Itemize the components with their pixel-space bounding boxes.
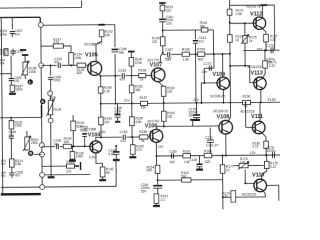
wire V110 output right: [267, 185, 279, 201]
node connector J8: [40, 185, 45, 190]
transistor V112: [253, 17, 266, 30]
wire pot R175 top: [244, 23, 246, 35]
wire V107 collector: [158, 82, 163, 87]
rail bar above R106: [22, 54, 28, 56]
svg-text:52V: 52V: [257, 47, 262, 51]
resistor R149: [160, 37, 165, 46]
svg-text:R166: R166: [242, 94, 250, 98]
wire R181 to V110 collector: [262, 168, 267, 179]
wire input signal y64.7: [41, 64, 56, 66]
wire V106 collector: [156, 126, 157, 129]
svg-text:23.8V: 23.8V: [267, 98, 276, 102]
wire emitter to C163: [101, 75, 122, 77]
junction V108 collector/bus: [225, 154, 227, 156]
rail bar top-left: [20, 49, 26, 51]
wire C173 stub: [204, 67, 214, 69]
capacitor C305: [9, 79, 14, 81]
wire C305a stem2: [12, 53, 14, 55]
resistor R168: [204, 153, 212, 157]
wire C158 stem: [116, 104, 118, 115]
wire rail to output drop: [273, 5, 275, 50]
svg-text:C172: C172: [205, 136, 213, 140]
svg-text:1.2V: 1.2V: [212, 144, 219, 148]
svg-text:R157: R157: [139, 96, 147, 100]
junction R170/output: [265, 49, 267, 51]
svg-text:820: 820: [198, 57, 204, 61]
junction C161/feedback: [195, 53, 197, 55]
resistor R156: [139, 135, 147, 139]
junction R159/C162 wire: [131, 136, 133, 138]
wire y137 b: [126, 136, 139, 138]
ground right of R144: [74, 162, 80, 170]
rail bar above R151: [159, 2, 165, 4]
svg-text:22V: 22V: [193, 98, 200, 102]
wire R134 bottom: [70, 64, 72, 66]
wire x230 top: [228, 0, 230, 9]
wire top right rail y6: [230, 4, 274, 6]
junction R160/V108 base wire: [163, 125, 165, 127]
resistor R152: [154, 194, 159, 204]
wire C173 drop: [213, 54, 215, 68]
capacitor C148: [48, 77, 53, 79]
wire C164 stem: [157, 180, 159, 184]
svg-text:R158: R158: [138, 68, 146, 72]
svg-text:R104: R104: [54, 108, 62, 112]
svg-text:V109: V109: [213, 72, 226, 78]
resistor R139: [77, 63, 86, 67]
capacitor C109: [58, 63, 60, 68]
wire lower bus y156.5: [156, 155, 280, 156]
svg-text:BC238B: BC238B: [84, 42, 96, 46]
resistor R164: [155, 165, 160, 173]
wire top border corner up: [81, 1, 83, 8]
wire left stub y116.5: [0, 116, 41, 118]
capacitor C164: [153, 185, 162, 187]
wire feedback to rail: [195, 54, 197, 103]
potentiometer R176: [238, 162, 249, 170]
potentiometer R175: [241, 35, 249, 45]
ground under R152: [155, 203, 157, 206]
capacitor C167: [168, 52, 170, 57]
resistor R316: [9, 121, 14, 129]
svg-text:V112: V112: [250, 11, 262, 17]
junction R162/rail: [163, 102, 165, 104]
wire C401 down: [162, 22, 164, 37]
svg-text:R347150k: R347150k: [15, 85, 23, 92]
wire supply drop x115.5 upper: [114, 25, 116, 48]
resistor R148: [98, 87, 103, 93]
svg-text:15k: 15k: [141, 106, 147, 110]
wire R173 top: [264, 50, 266, 60]
wire R143 bottom: [101, 37, 103, 42]
wire V110 base: [245, 182, 254, 184]
junction C173/base wire: [203, 82, 205, 84]
capacitor C168: [113, 151, 120, 153]
svg-text:C175: C175: [266, 44, 274, 48]
junction C148 branch: [49, 64, 51, 66]
wire R144 feed: [42, 165, 66, 167]
node connector J1: [38, 22, 43, 27]
wire V106 emitter: [155, 142, 157, 165]
resistor R140b: [71, 121, 76, 131]
ground under C168: [115, 158, 117, 160]
ground under R138: [71, 159, 73, 161]
resistor R172: [227, 9, 232, 15]
wire R159 bottom: [131, 126, 133, 137]
svg-text:R316150k: R316150k: [15, 120, 23, 127]
wire y180.4 to R161b: [158, 179, 223, 182]
wire C173 left drop: [203, 68, 205, 83]
svg-text:C163: C163: [118, 68, 126, 72]
capacitor C173: [209, 66, 211, 71]
wire V112 base: [230, 22, 257, 24]
resistor R153: [129, 85, 134, 93]
resistor R180: [264, 141, 269, 148]
capacitor C155: [82, 133, 87, 135]
node connector J2: [39, 63, 44, 68]
junction R148/rail: [100, 103, 102, 105]
junction V108 emitter/rail: [229, 102, 231, 104]
transistor V105: [88, 61, 102, 75]
junction pot/V113 base wire: [244, 65, 246, 67]
junction R140b/base wire: [72, 145, 74, 147]
svg-text:R106100k: R106100k: [29, 66, 37, 73]
resistor R151: [160, 5, 165, 11]
resistor R166: [243, 100, 251, 104]
wire R161 to feedback drop: [212, 30, 214, 54]
wire R151 to C401: [161, 11, 163, 18]
wire R170 bottom: [265, 42, 267, 50]
junction x115.5/emitter wire: [114, 75, 116, 77]
capacitor C170: [193, 114, 200, 116]
wire C168 bottom stem: [115, 155, 117, 158]
wire R140 bottom: [130, 66, 132, 76]
resistor R173: [263, 61, 268, 68]
capacitor C165: [171, 153, 173, 158]
wire pot R176 left: [234, 165, 239, 167]
ground bar under C158: [115, 121, 120, 123]
junction R140/base wire: [131, 75, 133, 77]
wire x222 drop: [221, 155, 223, 209]
wire main left bus: [41, 25, 42, 187]
wire R149 to emitter node: [162, 46, 164, 53]
svg-text:C162: C162: [120, 130, 128, 134]
resistor R160: [161, 111, 166, 121]
transistor V110: [254, 179, 267, 192]
wire pot R176 right: [248, 164, 264, 166]
potentiometer R104: [46, 99, 54, 116]
wire R104 below connector: [50, 123, 52, 175]
junction R154/C162 wire: [100, 136, 102, 138]
wire R154 bottom: [100, 125, 102, 137]
ground under R155: [132, 154, 134, 157]
wire R153 to rail: [131, 93, 133, 104]
svg-text:1k: 1k: [141, 139, 145, 143]
wire V108 emitter: [228, 103, 231, 122]
wire V104 collector: [96, 137, 101, 141]
capacitor C172: [207, 140, 214, 142]
svg-text:12V: 12V: [250, 151, 257, 155]
junction V109 base bias/rail: [200, 102, 202, 104]
resistor R170: [264, 34, 269, 42]
wire V106 base bar link: [149, 131, 151, 137]
resistor R159: [130, 117, 135, 126]
junction C170/rail: [195, 102, 197, 104]
svg-text:C167: C167: [165, 48, 173, 52]
resistor R138: [70, 152, 75, 160]
wire V111 emitter: [262, 133, 266, 142]
svg-text:V111: V111: [251, 114, 263, 120]
wire mid rail 22V: [101, 102, 280, 104]
resistor R314: [9, 159, 14, 167]
wire C164 to R152: [157, 188, 159, 194]
pot symbol L (volume): [28, 79, 33, 84]
wire R161 feed y30.5: [163, 29, 214, 31]
wire V113 emitter: [261, 88, 262, 102]
svg-text:V106: V106: [145, 123, 158, 129]
svg-text:R305100k: R305100k: [0, 49, 8, 56]
wire R106 top stem: [24, 55, 26, 62]
capacitor C166: [112, 48, 119, 50]
resistor R305: [4, 49, 8, 56]
wire shielded cable segment: [40, 105, 42, 118]
resistor R347: [10, 85, 14, 92]
junction C173 top: [213, 53, 215, 55]
wire V109 collector: [222, 54, 224, 77]
wire supply drop x115.5 lower: [114, 54, 116, 103]
resistor R144: [67, 164, 75, 168]
transistor V111: [252, 121, 265, 134]
svg-text:R144: R144: [66, 160, 74, 164]
resistor R157: [140, 101, 147, 105]
wire V104 base b: [60, 145, 63, 147]
wire y137 c: [148, 136, 151, 138]
wire V112 emitter: [262, 28, 266, 35]
junction x222/y198: [222, 196, 224, 198]
wire V104 base a: [42, 146, 55, 148]
junction C164 node: [157, 179, 159, 181]
wire upper-left feed drop: [39, 17, 41, 25]
wire C308 stem: [11, 167, 13, 173]
wire R140b top: [72, 115, 74, 121]
transistor V108: [219, 120, 233, 134]
junction x222/y155: [221, 154, 223, 156]
wire x230 to rail: [229, 66, 231, 103]
wire feedback y54.7 c: [189, 53, 197, 55]
capacitor C162: [123, 135, 125, 140]
wire V107 emitter: [159, 53, 163, 63]
wire C305a stem: [12, 49, 14, 51]
junction y155/y156 tie: [265, 154, 267, 156]
junction x230/V113 base: [229, 65, 231, 67]
wire R139 to V105 base: [86, 64, 90, 66]
svg-text:R161: R161: [183, 149, 191, 153]
capacitor C175: [271, 47, 273, 53]
capacitor C161: [193, 40, 198, 42]
wire V113 base: [230, 66, 257, 83]
svg-text:BC177C: BC177C: [148, 58, 161, 62]
capacitor C305a: [10, 51, 15, 53]
resistor R140: [129, 58, 134, 67]
wire C148 branch top: [49, 65, 51, 75]
wire R155 top: [132, 137, 134, 145]
junction output mid: [265, 154, 267, 156]
wire C306 stem top: [10, 118, 12, 136]
svg-text:BC338-25: BC338-25: [210, 94, 225, 98]
svg-text:1k: 1k: [140, 77, 144, 81]
transistor V104: [90, 141, 102, 153]
wire C172 stem up: [209, 128, 211, 140]
wire V104 emitter: [96, 153, 103, 167]
resistor R166a: [198, 52, 205, 56]
wire C109 to R139: [62, 64, 77, 66]
wire R147 to R134: [63, 46, 71, 53]
wire C308 stem2: [11, 175, 13, 178]
svg-text:R165: R165: [182, 48, 190, 52]
capacitor C163: [122, 73, 124, 78]
svg-text:R304250k: R304250k: [31, 138, 39, 145]
junction x230/feedback: [229, 53, 231, 55]
svg-text:47n: 47n: [119, 78, 125, 82]
capacitor C308: [9, 173, 14, 175]
wire pot wiper drop: [244, 170, 246, 184]
ground tap on y174 bus: [50, 175, 52, 177]
junction V109 emitter/rail: [222, 102, 224, 104]
junction V112 base tee: [229, 21, 231, 23]
svg-text:R138100k: R138100k: [76, 151, 84, 158]
svg-text:270: 270: [66, 170, 72, 174]
wire R147 feed: [41, 45, 53, 47]
wire V111 base: [246, 126, 255, 128]
wire R154 top: [100, 104, 102, 117]
svg-text:V108: V108: [217, 114, 230, 120]
junction pot/rail: [244, 101, 246, 103]
svg-text:V107: V107: [150, 63, 163, 69]
wire C168 top stem: [115, 146, 117, 151]
potentiometer R304: [23, 136, 31, 151]
wire R160 top: [163, 103, 165, 111]
wire upper-left feed: [0, 16, 40, 18]
resistor R161c: [183, 154, 191, 158]
junction V109 collector tap: [222, 53, 224, 55]
wire feedback y54.7 a: [163, 53, 167, 55]
svg-text:C169: C169: [189, 158, 197, 162]
svg-text:2.6V: 2.6V: [89, 156, 96, 160]
junction V107 emitter node: [162, 52, 164, 54]
svg-text:47n: 47n: [120, 139, 126, 143]
wire x132 mid: [131, 76, 133, 85]
node connector J6: [40, 152, 45, 157]
svg-text:21V: 21V: [124, 99, 131, 103]
wire C161 stem: [194, 30, 196, 39]
resistor R134: [69, 53, 74, 66]
junction R153/rail: [131, 102, 133, 104]
capacitor C136: [56, 144, 58, 149]
svg-text:B: B: [29, 152, 32, 156]
wire R148 to rail: [100, 93, 102, 104]
node connector J3: [48, 91, 53, 96]
svg-text:R156: R156: [139, 130, 147, 134]
wire ground bus right corner: [115, 161, 117, 186]
wire R104 bottom: [50, 115, 52, 118]
wire R304 top stem: [26, 131, 28, 137]
svg-text:820: 820: [205, 160, 211, 164]
wire R138 top: [71, 146, 73, 151]
wire R160 bottom: [163, 121, 165, 126]
wire V109 emitter: [222, 89, 224, 102]
wire R140b bottom: [72, 131, 74, 147]
wire C148 branch bottom: [50, 80, 52, 91]
svg-text:V113: V113: [251, 70, 263, 76]
junction C155/base wire: [84, 145, 86, 147]
capacitor C171: [197, 163, 203, 165]
wire pot R175 bottom: [244, 43, 246, 66]
wire x230 mid: [229, 15, 231, 34]
wire R106 bottom stem: [24, 75, 26, 79]
svg-text:V110: V110: [252, 173, 264, 179]
resistor R161b: [182, 178, 191, 182]
svg-text:14V: 14V: [158, 145, 165, 149]
svg-text:R134100k: R134100k: [74, 53, 82, 60]
resistor R154: [99, 117, 104, 125]
svg-text:150: 150: [169, 160, 175, 164]
rail bar on V108 base wire: [190, 119, 195, 121]
resistor R179: [231, 191, 236, 203]
wire V112 collector: [261, 5, 263, 18]
pot symbol K (tone): [40, 99, 45, 104]
wire C155 stem: [84, 136, 86, 146]
ground under R347: [11, 92, 13, 94]
svg-text:C155560p: C155560p: [80, 125, 88, 132]
ground under C170: [196, 118, 198, 120]
wire small left stub y72.5: [0, 73, 11, 75]
capacitor C401: [159, 18, 166, 20]
rail bar V112 collector: [261, 4, 267, 6]
svg-text:R159: R159: [197, 48, 205, 52]
wire C307 stem2: [11, 34, 13, 37]
wire feedback y54.7 b: [171, 53, 182, 55]
svg-text:R301220k: R301220k: [0, 29, 8, 36]
wire C163 to R158: [125, 75, 138, 77]
junction x115.5/rail: [114, 103, 116, 105]
svg-text:15n: 15n: [165, 58, 171, 62]
transistor V107: [151, 68, 165, 82]
transistor V109: [217, 77, 230, 90]
svg-text:1.8k: 1.8k: [183, 57, 190, 61]
resistor R165: [182, 52, 189, 56]
ground under R142: [102, 177, 104, 180]
node connector J5: [39, 143, 44, 148]
capacitor C176: [272, 152, 274, 158]
resistor R142: [100, 167, 105, 177]
pot symbol B (bass): [28, 151, 33, 156]
svg-text:K: K: [41, 100, 44, 104]
svg-text:AD162/26: AD162/26: [240, 110, 254, 114]
wire R151 top stem: [161, 3, 163, 5]
resistor R162: [161, 86, 166, 96]
wire V111 collector: [259, 102, 261, 121]
resistor R181: [264, 161, 269, 168]
junction R138/base: [71, 145, 73, 147]
svg-text:C165: C165: [169, 149, 177, 153]
wire R158 to V107 base: [146, 74, 153, 76]
node connector J4: [48, 118, 53, 123]
wire R180 bottom: [265, 148, 267, 155]
wire left border: [1, 18, 3, 195]
wire V105 emitter: [98, 74, 100, 87]
wire R164 bottom: [157, 173, 159, 180]
wire pot top stem: [49, 96, 51, 100]
